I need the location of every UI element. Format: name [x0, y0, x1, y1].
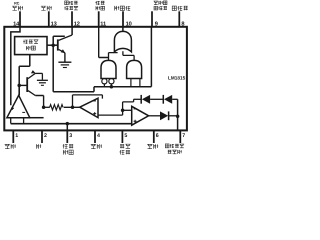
svg-text:RC: RC	[14, 1, 20, 5]
svg-text:6: 6	[156, 133, 159, 139]
wire A1 bottom edge extension to resistor node	[30, 117, 44, 119]
wire A3 output	[149, 115, 160, 117]
svg-text:LM1815: LM1815	[168, 76, 186, 81]
transistor Q1	[57, 39, 59, 50]
wire pin11 to G1 output	[99, 27, 109, 58]
wire one-shot output to Q1 base	[47, 44, 58, 46]
comparator A2 (points left)	[80, 98, 98, 117]
OR gate U3	[114, 31, 131, 51]
svg-text:12: 12	[74, 22, 80, 28]
input rail W2	[94, 86, 151, 88]
pin 1 stub	[12, 130, 14, 143]
diode D1	[134, 98, 141, 100]
wire G2 output to OR	[123, 51, 134, 60]
label pin10 门输出	[115, 6, 120, 11]
wire A1 output up	[18, 85, 20, 95]
pin 13 stub	[48, 11, 50, 26]
svg-text:7: 7	[182, 133, 185, 139]
node E peak detector	[176, 114, 180, 118]
pin 7 stub	[179, 130, 181, 143]
wire bus to pin3	[66, 124, 68, 131]
pin 4 stub	[94, 130, 96, 143]
svg-text:10: 10	[126, 22, 132, 28]
svg-text:11: 11	[100, 22, 106, 28]
leads A1 inputs to bus	[10, 118, 12, 124]
svg-text:8: 8	[181, 22, 184, 28]
wire A2 + input across to node D	[98, 110, 123, 115]
node bubble2 on W2	[110, 85, 114, 89]
pin 2 stub	[41, 130, 43, 143]
pin 9 stub	[151, 11, 153, 26]
pin 8 stub	[178, 11, 180, 26]
one-shot box 一次性触发	[15, 37, 47, 55]
pin 12 stub	[71, 11, 73, 26]
wire node D to A3	[123, 109, 132, 111]
pin 10 stub	[122, 11, 124, 26]
label pin9 定时脉/冲输入	[154, 1, 158, 5]
wire diode string down to node E and pin7	[177, 99, 179, 130]
label pin1 空脚	[5, 144, 10, 148]
transistor Q2	[19, 84, 27, 86]
pin 6 stub	[153, 130, 155, 143]
svg-text:5: 5	[124, 133, 127, 139]
comparator A3	[132, 106, 149, 125]
wire OR output to pin10	[122, 27, 124, 32]
wire node up to pin12 rail	[53, 27, 72, 45]
label pin7 峰值检测/器电容	[165, 144, 169, 148]
gate G2 (AND)	[127, 60, 142, 78]
wire pin14 to comparator A1	[11, 27, 20, 105]
node box output	[51, 43, 55, 47]
wire node D up to diode string	[123, 99, 134, 110]
node pin3 on bus	[66, 122, 70, 126]
svg-text:14: 14	[13, 22, 20, 28]
svg-text:1: 1	[15, 133, 18, 139]
comparator A1	[7, 95, 30, 117]
svg-text:2: 2	[44, 133, 47, 139]
svg-text:4: 4	[97, 133, 100, 139]
node resistor right / feedback	[71, 106, 75, 110]
G1 input bubbles	[102, 79, 107, 84]
node A1 output / Q2 base	[17, 84, 21, 88]
label pin8 正电源	[172, 6, 176, 10]
pin 3 stub	[66, 130, 68, 143]
ground under Q1	[58, 61, 71, 63]
wire pin9 down to W2	[150, 27, 152, 87]
svg-text:13: 13	[51, 22, 57, 28]
IC outline LM1815	[4, 27, 187, 131]
node resistor left	[42, 106, 46, 110]
diode D2	[150, 98, 163, 100]
wire one-shot bottom to A1/Q2 node	[19, 55, 30, 96]
label pin13 空脚	[41, 6, 46, 10]
label pin4 空脚	[91, 144, 96, 148]
bottom signal bus	[11, 123, 132, 125]
diode D3	[160, 111, 168, 120]
label pin6 空脚	[147, 144, 152, 148]
resistor R1	[44, 106, 50, 108]
label pin12 基准脉/冲输出	[65, 1, 69, 5]
feedback wire to A2 inverting input	[73, 95, 103, 107]
node D (A3 inverting net)	[121, 109, 125, 113]
gate G1 (AND w/ inverted inputs)	[101, 60, 116, 78]
pin 11 stub	[98, 11, 100, 26]
wire G1 output to OR	[109, 53, 118, 61]
svg-text:9: 9	[155, 22, 158, 28]
pin 5 stub	[121, 130, 123, 143]
label pin11 输入/选择	[95, 1, 99, 5]
svg-text:3: 3	[69, 133, 72, 139]
label pin5 迟滞/调节	[120, 144, 124, 148]
pin 14 stub	[19, 11, 21, 26]
label pin3 信号/输入	[63, 144, 68, 148]
wire node down and across to gate G1 (W1)	[53, 45, 94, 92]
label pin2 地	[36, 144, 41, 149]
ground at Q2 emitter	[37, 79, 48, 81]
